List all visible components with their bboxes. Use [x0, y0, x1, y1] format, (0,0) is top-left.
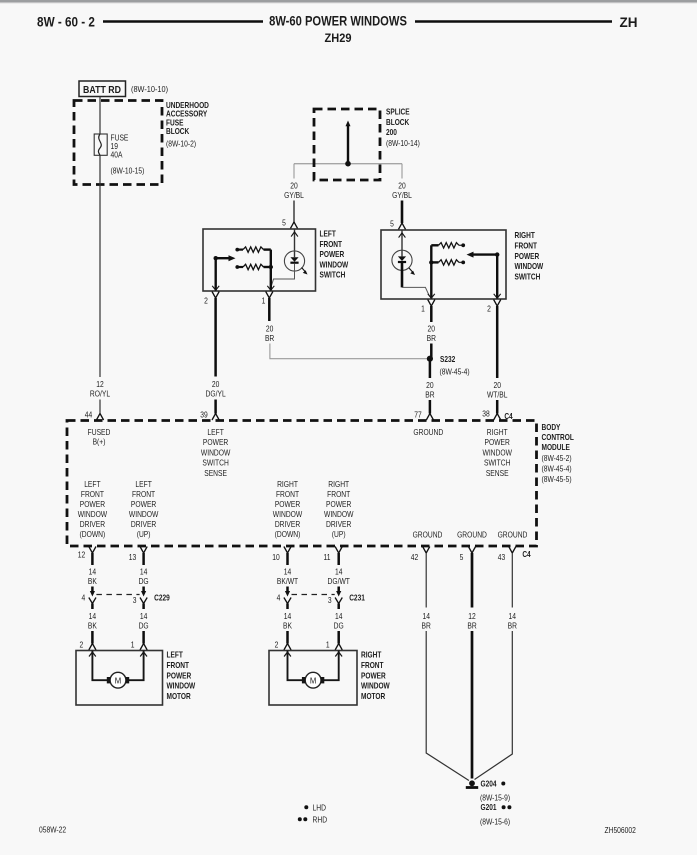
fuse F19 element [98, 134, 101, 155]
left switch wiper arrowhead [229, 255, 236, 261]
wire splice distribution [294, 163, 402, 165]
svg-text:G204: G204 [481, 779, 498, 789]
svg-text:WINDOW: WINDOW [482, 448, 511, 458]
right switch wiper arrowhead [467, 252, 474, 258]
right switch pin 5 terminal [398, 223, 405, 230]
svg-text:DRIVER: DRIVER [131, 519, 156, 529]
right switch LED arrow [409, 268, 414, 273]
left switch lamp feed wire [294, 229, 296, 257]
svg-text:WINDOW: WINDOW [129, 509, 158, 519]
svg-text:DG: DG [139, 576, 149, 586]
svg-text:(8W-15-6): (8W-15-6) [480, 817, 510, 827]
wire right 20 BR (mid) [430, 344, 433, 359]
svg-text:44: 44 [85, 410, 92, 420]
svg-text:20: 20 [290, 181, 297, 191]
svg-text:BATT RD: BATT RD [83, 83, 121, 95]
left switch common arrow [267, 286, 274, 290]
connector C229 dashed tie [96, 594, 139, 596]
svg-text:BR: BR [467, 621, 476, 631]
wire left 20 BR to splice [270, 344, 430, 359]
svg-text:ZH506002: ZH506002 [605, 825, 636, 835]
motor pin 1 terminal (C229) [140, 644, 147, 651]
svg-text:10: 10 [272, 552, 279, 562]
right switch lamp feed wire [401, 230, 403, 256]
svg-text:14: 14 [284, 567, 291, 577]
wire 20 WT/BL (upper) [496, 306, 499, 378]
svg-text:GY/BL: GY/BL [284, 190, 304, 200]
right switch pin2 internal arrow [494, 294, 501, 298]
wire 14 BK lower (C229) [91, 604, 94, 610]
connector C229 pin 4 [90, 591, 95, 597]
svg-text:4: 4 [277, 593, 281, 603]
svg-text:WINDOW: WINDOW [78, 509, 107, 519]
svg-text:CONTROL: CONTROL [542, 432, 575, 442]
svg-text:1: 1 [131, 640, 135, 650]
svg-text:SENSE: SENSE [486, 468, 509, 478]
svg-text:14: 14 [335, 567, 342, 577]
wire BATT RD to fuse [99, 97, 101, 135]
BCM pin 11 terminal [335, 547, 342, 554]
svg-text:MOTOR: MOTOR [361, 691, 386, 701]
wire ground right 14 BR (upper) [511, 553, 513, 608]
svg-text:12: 12 [96, 379, 103, 389]
motor pin 1 terminal (C231) [335, 644, 342, 651]
motor internal arrows LEFT [89, 652, 147, 657]
svg-text:(8W-10-15): (8W-10-15) [111, 166, 145, 176]
right switch resistor down lead [431, 261, 438, 263]
left switch pin2 internal arrow [212, 286, 219, 290]
svg-text:20: 20 [212, 379, 219, 389]
svg-text:RO/YL: RO/YL [90, 389, 110, 399]
svg-text:(8W-45-4): (8W-45-4) [440, 367, 470, 377]
svg-text:BR: BR [265, 333, 274, 343]
left switch resistor up contact [235, 248, 239, 252]
svg-text:SENSE: SENSE [204, 468, 227, 478]
BCM pin 77 terminal [426, 414, 433, 421]
left switch common junction [269, 265, 273, 269]
wire 14 BK lower (C231) [286, 604, 289, 610]
wire fuse block to BCM (upper) [99, 155, 101, 377]
svg-text:40A: 40A [111, 150, 123, 160]
svg-text:FRONT: FRONT [167, 660, 190, 670]
right switch lamp return wire [402, 287, 430, 296]
svg-text:(8W-45-4): (8W-45-4) [542, 464, 572, 474]
svg-text:DRIVER: DRIVER [80, 519, 105, 529]
svg-text:LHD: LHD [313, 803, 326, 813]
wire ground mid 12 BR (upper) [471, 553, 474, 608]
svg-text:G201: G201 [481, 802, 497, 812]
wire 14 DG lower (C231) [337, 604, 340, 610]
svg-text:POWER: POWER [167, 671, 192, 681]
motor M symbol RIGHT [305, 672, 321, 688]
svg-text:43: 43 [498, 552, 505, 562]
svg-text:POWER: POWER [326, 499, 351, 509]
svg-text:WT/BL: WT/BL [487, 390, 508, 400]
svg-text:RIGHT: RIGHT [277, 479, 298, 489]
connector C231 dashed tie [292, 594, 335, 596]
svg-text:20: 20 [266, 324, 273, 334]
wire 20 DG/YL (upper) [214, 298, 217, 377]
motor internal wires LEFT [92, 651, 143, 681]
svg-text:20: 20 [493, 380, 500, 390]
left switch resistor down contact [235, 265, 239, 269]
connector C231 pin 4 [285, 591, 290, 597]
left switch resistor up [243, 247, 264, 252]
motor internal arrows RIGHT [284, 652, 342, 657]
svg-text:(8W-10-10): (8W-10-10) [131, 85, 168, 94]
svg-text:WINDOW: WINDOW [361, 681, 390, 691]
svg-text:BLOCK: BLOCK [166, 126, 190, 136]
svg-text:RIGHT: RIGHT [328, 479, 349, 489]
wire left 20 BR (bold) [268, 298, 271, 321]
svg-text:1: 1 [421, 304, 425, 314]
svg-text:MODULE: MODULE [542, 442, 570, 452]
splice block 200 arrow up [346, 121, 351, 127]
wire right 20 GY/BL (upper) [401, 164, 403, 179]
svg-text:FRONT: FRONT [132, 489, 156, 499]
svg-text:C229: C229 [154, 593, 170, 603]
wire ground mid 12 BR (lower) [471, 631, 474, 779]
motor internal wires RIGHT [288, 651, 339, 681]
svg-text:14: 14 [284, 611, 291, 621]
svg-text:20: 20 [398, 181, 405, 191]
svg-text:2: 2 [204, 296, 208, 306]
svg-text:BLOCK: BLOCK [386, 117, 410, 127]
left switch wiper arm [216, 257, 230, 259]
node BATT RD box [79, 81, 126, 97]
svg-text:14: 14 [335, 611, 342, 621]
svg-text:GY/BL: GY/BL [392, 190, 412, 200]
BCM pin 12 terminal [89, 547, 96, 554]
svg-text:SWITCH: SWITCH [484, 458, 510, 468]
svg-text:POWER: POWER [131, 499, 156, 509]
svg-text:(DOWN): (DOWN) [80, 529, 106, 539]
wire DG to connector [142, 587, 145, 593]
svg-text:3: 3 [328, 595, 332, 605]
left switch resistor up lead [264, 248, 271, 250]
svg-text:RIGHT: RIGHT [361, 650, 382, 660]
svg-text:12: 12 [78, 550, 85, 560]
ground G204/G201 symbol [469, 780, 475, 786]
svg-text:058W-22: 058W-22 [39, 825, 66, 835]
underhood accessory fuse block box [74, 101, 162, 185]
svg-text:WINDOW: WINDOW [324, 509, 353, 519]
svg-text:42: 42 [411, 552, 418, 562]
svg-text:2: 2 [487, 304, 491, 314]
wire 20 BR to ground pin (lower) [429, 400, 432, 414]
splice block 200 internal wire [347, 124, 349, 164]
fuse F19 body [94, 134, 107, 155]
connector C231 pin 3 [336, 591, 341, 597]
splice block 200 junction [345, 161, 351, 167]
left switch resistor down lead [264, 266, 271, 268]
wire left 20 GY/BL (upper) [293, 164, 295, 179]
wire DG/WT upper right [337, 553, 340, 565]
svg-text:RIGHT: RIGHT [487, 427, 508, 437]
BCM pin 5 terminal [468, 547, 475, 554]
right switch resistor down [439, 260, 460, 265]
wire left 20 GY/BL (lower) [293, 201, 295, 223]
svg-text:DG: DG [334, 621, 344, 631]
wire BK upper left [91, 553, 94, 565]
BCM pin 13 terminal [140, 547, 147, 554]
svg-text:3: 3 [133, 595, 137, 605]
BCM pin 42 terminal [423, 547, 430, 554]
splice block 200 box [314, 109, 380, 180]
svg-text:FRONT: FRONT [515, 241, 538, 251]
left switch illumination LED circle [284, 251, 304, 271]
BCM pin 43 terminal [509, 547, 516, 554]
wire BK to connector [91, 587, 94, 593]
svg-text:BK/WT: BK/WT [277, 576, 299, 586]
header rule left [103, 20, 263, 23]
svg-text:FRONT: FRONT [81, 489, 105, 499]
wire DG upper right [142, 553, 145, 565]
svg-text:RIGHT: RIGHT [515, 230, 536, 240]
wire to motor pin 1 (C229) [142, 631, 145, 644]
svg-text:MOTOR: MOTOR [167, 691, 192, 701]
right switch pin2 internal wire [496, 255, 498, 299]
svg-text:LEFT: LEFT [320, 229, 337, 239]
svg-text:C4: C4 [522, 549, 531, 559]
right switch illumination LED circle [392, 250, 412, 270]
BCM pin 39 terminal [212, 414, 219, 421]
svg-text:(UP): (UP) [137, 529, 151, 539]
wire 20 DG/YL (lower) [214, 400, 217, 414]
motor box LEFT [76, 651, 163, 706]
wire right 20 GY/BL (lower) [401, 201, 404, 224]
svg-text:WINDOW: WINDOW [515, 261, 544, 271]
svg-text:14: 14 [89, 611, 96, 621]
svg-text:8W - 60 - 2: 8W - 60 - 2 [37, 15, 95, 30]
left switch pin 1 terminal [266, 292, 273, 299]
svg-text:POWER: POWER [361, 671, 386, 681]
svg-text:C231: C231 [349, 593, 365, 603]
svg-text:BR: BR [427, 333, 436, 343]
right switch resistor up [439, 243, 460, 248]
right switch resistor up contact [459, 244, 463, 246]
splice S232 [427, 356, 433, 362]
left switch pin 5 terminal [290, 222, 297, 229]
wire fuse to BCM (lower) [99, 400, 101, 414]
svg-text:BK: BK [283, 621, 292, 631]
svg-text:WINDOW: WINDOW [320, 260, 349, 270]
right switch pin 1 terminal [428, 300, 435, 307]
wire 20 BR to ground pin (upper) [429, 359, 432, 378]
op right front power window switch box [381, 230, 506, 299]
right switch resistor up lead [431, 244, 438, 246]
svg-text:77: 77 [414, 410, 421, 420]
svg-text:LEFT: LEFT [84, 479, 101, 489]
svg-text:GROUND: GROUND [413, 427, 443, 437]
svg-text:POWER: POWER [320, 249, 345, 259]
svg-text:4: 4 [82, 593, 86, 603]
svg-text:FRONT: FRONT [327, 489, 351, 499]
svg-text:LEFT: LEFT [207, 427, 224, 437]
svg-text:GROUND: GROUND [413, 530, 443, 540]
right switch resistor down junction [429, 260, 433, 264]
left switch lamp return wire [270, 264, 294, 290]
wire BK/WT upper left [286, 553, 289, 565]
svg-text:LEFT: LEFT [167, 650, 184, 660]
svg-text:M: M [115, 676, 122, 685]
right switch common wire [430, 245, 432, 298]
svg-text:14: 14 [509, 611, 516, 621]
svg-text:DG/WT: DG/WT [328, 576, 351, 586]
motor pin 2 terminal (C231) [284, 644, 291, 651]
right switch wiper arm [472, 253, 497, 255]
svg-text:DG/YL: DG/YL [206, 389, 226, 399]
wire 14 DG lower (C229) [142, 604, 145, 610]
svg-text:(8W-10-14): (8W-10-14) [386, 138, 420, 148]
svg-text:DRIVER: DRIVER [275, 519, 300, 529]
svg-text:1: 1 [326, 640, 330, 650]
svg-text:BR: BR [425, 390, 434, 400]
right switch LED diode [398, 256, 406, 261]
left switch wiper junction [214, 256, 218, 260]
left switch pin 2 terminal [212, 292, 219, 299]
svg-text:2: 2 [275, 640, 279, 650]
wire ground left 14 BR (lower) [426, 631, 469, 781]
svg-text:2: 2 [80, 640, 84, 650]
svg-text:13: 13 [129, 552, 136, 562]
connector C229 pin 3 [141, 591, 146, 597]
svg-text:GROUND: GROUND [498, 530, 528, 540]
wire to motor pin 1 (C231) [337, 631, 340, 644]
right switch pin 2 terminal [494, 300, 501, 307]
svg-text:11: 11 [324, 552, 331, 562]
wire BK/WT to connector [286, 587, 289, 593]
legend RHD [298, 817, 302, 821]
svg-text:(DOWN): (DOWN) [275, 529, 301, 539]
body control module box [67, 421, 537, 547]
svg-text:ZH: ZH [620, 15, 638, 30]
svg-text:BK: BK [88, 576, 97, 586]
left switch resistor down [243, 264, 264, 269]
svg-text:POWER: POWER [275, 499, 300, 509]
svg-text:WINDOW: WINDOW [167, 681, 196, 691]
svg-text:(8W-10-2): (8W-10-2) [166, 139, 196, 149]
svg-text:FRONT: FRONT [276, 489, 300, 499]
svg-text:5: 5 [460, 552, 464, 562]
legend LHD [304, 805, 308, 809]
left switch common wire [270, 250, 272, 291]
svg-text:SWITCH: SWITCH [202, 458, 228, 468]
right switch resistor down contact [459, 261, 463, 263]
svg-text:POWER: POWER [203, 438, 228, 448]
svg-text:(8W-15-9): (8W-15-9) [480, 793, 510, 803]
svg-text:DRIVER: DRIVER [326, 519, 351, 529]
wire to motor pin 2 (C231) [286, 631, 289, 644]
left switch LED diode [290, 257, 298, 262]
svg-text:B(+): B(+) [93, 437, 106, 447]
svg-text:POWER: POWER [80, 499, 105, 509]
svg-text:RHD: RHD [313, 815, 328, 825]
BCM pin 44 terminal [96, 414, 103, 421]
svg-text:SWITCH: SWITCH [515, 272, 541, 282]
right switch common arrow [428, 294, 435, 298]
svg-text:WINDOW: WINDOW [273, 509, 302, 519]
left switch pin2 internal wire [214, 258, 216, 290]
header rule right [415, 20, 612, 23]
right switch wiper junction [495, 252, 499, 256]
svg-text:FUSED: FUSED [88, 427, 111, 437]
page top scan edge [0, 0, 697, 3]
svg-text:ZH29: ZH29 [325, 32, 352, 44]
wire to motor pin 2 (C229) [91, 631, 94, 644]
svg-text:WINDOW: WINDOW [201, 448, 230, 458]
svg-text:20: 20 [426, 380, 433, 390]
svg-text:SPLICE: SPLICE [386, 107, 410, 117]
svg-text:14: 14 [422, 611, 429, 621]
BCM pin 38 terminal [494, 414, 501, 421]
svg-text:14: 14 [89, 567, 96, 577]
svg-text:BR: BR [508, 621, 517, 631]
svg-text:M: M [310, 676, 317, 685]
svg-text:BK: BK [88, 621, 97, 631]
svg-text:5: 5 [282, 218, 286, 228]
svg-text:BODY: BODY [542, 422, 561, 432]
right switch feed arrow [399, 233, 406, 238]
svg-text:38: 38 [482, 409, 489, 419]
svg-text:(8W-45-5): (8W-45-5) [542, 475, 572, 485]
svg-text:5: 5 [390, 219, 394, 229]
wire DG/WT to connector [337, 587, 340, 593]
left switch feed arrow [291, 232, 298, 237]
wire ground right 14 BR (lower) [475, 631, 513, 780]
svg-text:S232: S232 [440, 354, 455, 364]
wire right 20 BR (upper) [430, 306, 433, 322]
op left front power window switch box [203, 229, 316, 291]
motor M symbol LEFT [110, 672, 126, 688]
svg-text:GROUND: GROUND [457, 530, 487, 540]
svg-text:BR: BR [422, 621, 431, 631]
left switch LED arrow [302, 268, 307, 273]
svg-text:FRONT: FRONT [320, 239, 343, 249]
svg-text:(8W-45-2): (8W-45-2) [542, 453, 572, 463]
wire ground left 14 BR (upper) [425, 553, 427, 608]
svg-text:1: 1 [262, 296, 266, 306]
svg-text:12: 12 [468, 611, 475, 621]
svg-text:(UP): (UP) [332, 529, 346, 539]
svg-text:POWER: POWER [515, 251, 540, 261]
svg-text:39: 39 [200, 410, 207, 420]
svg-text:SWITCH: SWITCH [320, 270, 346, 280]
svg-text:DG: DG [139, 621, 149, 631]
svg-text:14: 14 [140, 611, 147, 621]
svg-text:200: 200 [386, 127, 397, 137]
svg-text:14: 14 [140, 567, 147, 577]
motor box RIGHT [269, 651, 357, 706]
svg-text:LEFT: LEFT [135, 479, 152, 489]
wire 20 WT/BL (lower) [496, 400, 499, 414]
svg-text:FRONT: FRONT [361, 660, 384, 670]
svg-text:POWER: POWER [485, 438, 510, 448]
motor pin 2 terminal (C229) [89, 644, 96, 651]
svg-text:8W-60 POWER WINDOWS: 8W-60 POWER WINDOWS [269, 14, 407, 29]
BCM pin 10 terminal [284, 547, 291, 554]
svg-text:20: 20 [428, 324, 435, 334]
svg-text:C4: C4 [504, 411, 513, 421]
